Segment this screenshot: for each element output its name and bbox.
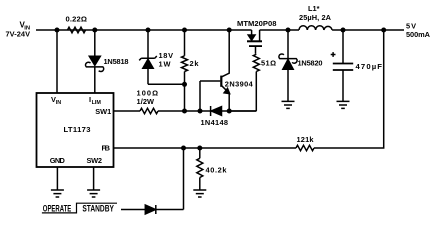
svg-text:SW1: SW1 (95, 107, 111, 116)
ground SW2 pin (87, 190, 100, 197)
svg-text:1N4148: 1N4148 (201, 118, 229, 127)
junction SW1-2k node (182, 109, 187, 114)
svg-text:5V: 5V (406, 21, 416, 30)
junction SW1-base node (198, 109, 203, 114)
op-amp U1 LT1173 box (37, 93, 114, 167)
junction zener-2k (182, 82, 187, 87)
resistor 121k (296, 145, 314, 150)
junction rail-1N5820 (286, 28, 291, 33)
svg-text:500mA: 500mA (406, 30, 431, 39)
ground C1 (337, 101, 350, 108)
ground 40.2k (193, 190, 206, 197)
ground GND pin (51, 190, 64, 197)
svg-text:IN: IN (56, 100, 61, 106)
junction input-zener (146, 28, 151, 33)
svg-text:LIM: LIM (92, 100, 102, 106)
diode D5 standby (145, 205, 155, 214)
svg-text:OPERATE: OPERATE (43, 203, 71, 213)
junction rail-cap (341, 28, 346, 33)
junction FB-40k (197, 146, 202, 151)
junction input-D1 (92, 28, 97, 33)
junction input-collector (227, 28, 232, 33)
svg-text:SW2: SW2 (87, 156, 103, 165)
svg-text:51Ω: 51Ω (261, 58, 276, 67)
svg-text:100Ω: 100Ω (137, 88, 159, 97)
resistor 100R (140, 108, 158, 113)
svg-text:L1*: L1* (308, 4, 320, 13)
inductor L1 (299, 26, 332, 30)
resistor 40.2k (199, 148, 201, 158)
transistor Q1 2N3904 (220, 76, 222, 87)
wire output rail (260, 29, 299, 31)
svg-text:470µF: 470µF (356, 62, 383, 71)
svg-text:MTM20P08: MTM20P08 (237, 19, 277, 28)
zener D2 18V (147, 30, 149, 84)
diode D3 1N4148 (210, 106, 212, 116)
svg-text:STANDBY: STANDBY (82, 203, 114, 213)
junction input-VIN pin (55, 28, 60, 33)
wire standby to diode (121, 148, 184, 210)
svg-text:40.2k: 40.2k (206, 166, 228, 175)
junction input-2k (182, 28, 187, 33)
svg-text:1W: 1W (159, 60, 171, 69)
wire VIN pin (56, 30, 58, 93)
diode D1 1N5818 (94, 30, 96, 93)
wire GND pin (56, 167, 58, 190)
resistor 2k (184, 30, 186, 56)
diode D4 1N5820 (287, 30, 289, 101)
transistor Q2 MTM20P08 (251, 30, 253, 35)
svg-text:LT1173: LT1173 (64, 125, 91, 134)
svg-text:25µH, 2A: 25µH, 2A (299, 13, 332, 22)
wire input rail (36, 29, 252, 31)
svg-text:1N5818: 1N5818 (104, 57, 129, 66)
svg-text:1/2W: 1/2W (137, 97, 155, 106)
svg-text:2N3904: 2N3904 (225, 80, 254, 89)
svg-text:0.22Ω: 0.22Ω (66, 15, 88, 24)
wire FB line (114, 30, 384, 148)
resistor 0.22R (68, 27, 86, 33)
junction SW1-emitter node (227, 109, 232, 114)
wire zener anode to node (148, 83, 185, 85)
svg-text:121k: 121k (297, 135, 315, 144)
svg-text:1N5820: 1N5820 (298, 58, 323, 67)
junction rail-feedback (381, 28, 386, 33)
svg-text:2k: 2k (190, 59, 200, 68)
wire SW2 pin (93, 167, 95, 190)
svg-text:FB: FB (102, 144, 111, 153)
capacitor C1 470uF (342, 30, 344, 101)
svg-text:7V-24V: 7V-24V (6, 30, 31, 39)
ground 1N5820 (282, 101, 295, 108)
wire SW1 line (114, 110, 257, 112)
svg-text:GND: GND (50, 156, 66, 165)
resistor 51R (253, 54, 259, 71)
junction FB-standby (181, 146, 186, 151)
